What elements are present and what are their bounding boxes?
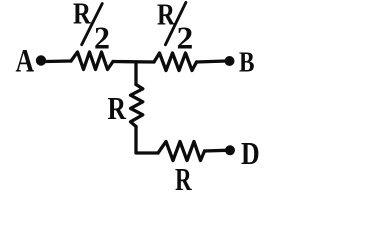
svg-text:2: 2 [177, 21, 194, 56]
wire A-dot to R1 [46, 59, 72, 63]
wire R2 to B dot [197, 61, 227, 62]
svg-text:R: R [108, 91, 127, 126]
resistor R/2 (right) [154, 53, 197, 71]
svg-text:R: R [73, 0, 92, 31]
node A terminal dot [36, 55, 46, 65]
svg-text:2: 2 [94, 20, 110, 56]
wire R3 to D dot [205, 149, 227, 153]
svg-text:D: D [241, 137, 260, 172]
resistor R (vertical) [131, 85, 143, 127]
resistor R/2 (left) [71, 52, 113, 70]
wire junction stub [134, 62, 137, 85]
node D terminal dot [225, 145, 235, 155]
label R/2 left: slash [82, 4, 103, 45]
wire vertical down to elbow [136, 127, 158, 154]
label R/2 right: slash [165, 2, 186, 44]
svg-text:A: A [16, 44, 35, 80]
wire R1 to R2 through node [113, 60, 154, 64]
node B terminal dot [225, 56, 235, 66]
svg-text:B: B [239, 46, 254, 78]
resistor R (bottom) [158, 142, 205, 161]
svg-text:R: R [175, 162, 192, 198]
